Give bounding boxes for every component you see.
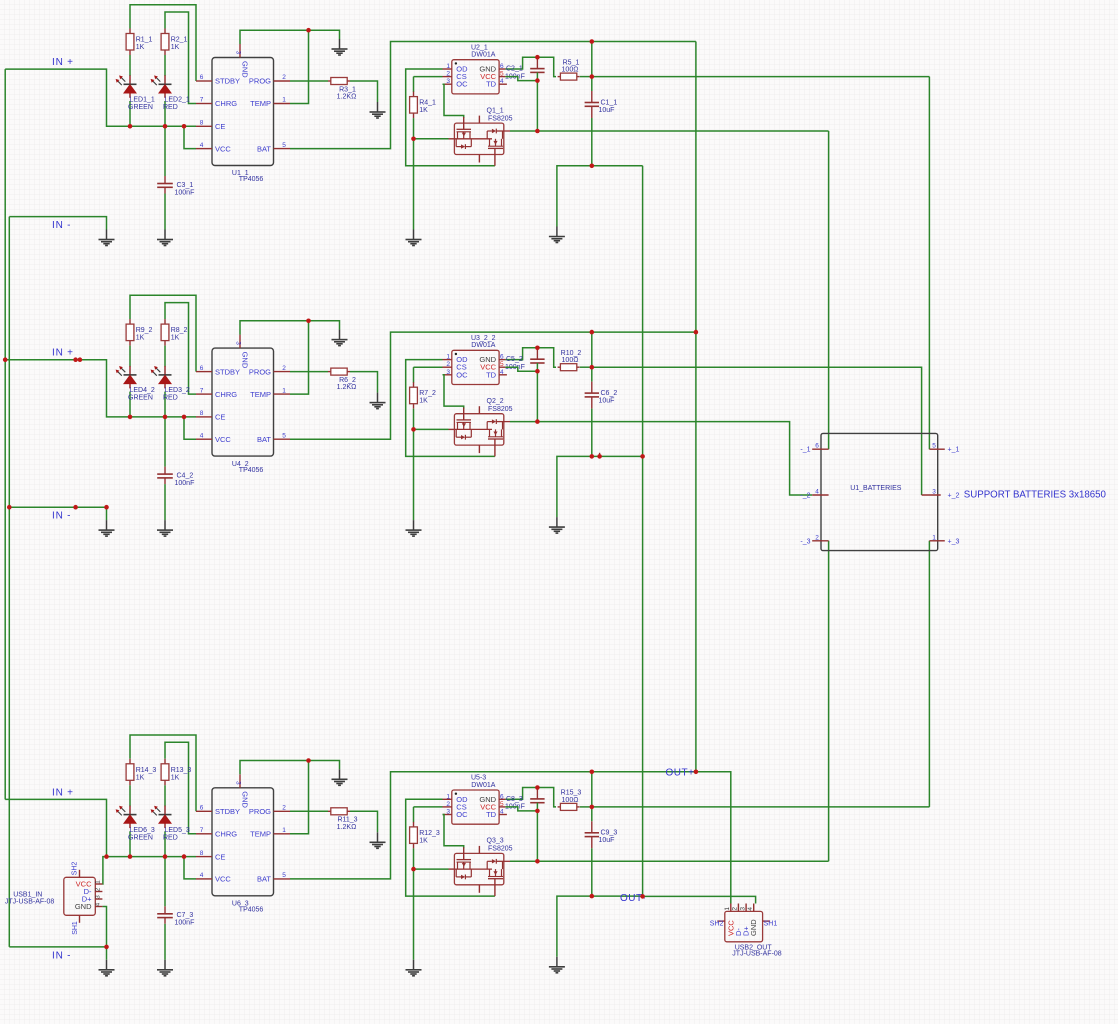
lead CS into Q bbox=[449, 138, 455, 140]
svg-text:6: 6 bbox=[500, 63, 504, 70]
wire IN- block1 bbox=[9, 217, 106, 230]
wire B+ riser bbox=[591, 772, 593, 822]
resistor R13_3 bbox=[161, 759, 169, 786]
wire OC net bbox=[443, 84, 464, 118]
lead C top bbox=[164, 176, 166, 183]
LED LED4_2 bbox=[116, 366, 137, 389]
wire GND pin elbow bbox=[240, 30, 340, 44]
LED LED1_1 bbox=[116, 75, 137, 98]
op-amp U2_1 DW01A body bbox=[452, 60, 499, 94]
wire TEMP tie bbox=[290, 30, 309, 103]
svg-text:RED: RED bbox=[163, 395, 178, 402]
wire to C bbox=[164, 857, 166, 907]
wire OUT+ to USB2 VCC bbox=[696, 772, 731, 904]
svg-text:1: 1 bbox=[282, 97, 286, 104]
pin 6 STDBY bbox=[196, 365, 240, 377]
svg-text:TD: TD bbox=[486, 810, 497, 819]
wire GND pin to R bbox=[505, 57, 556, 76]
svg-text:1.2KΩ: 1.2KΩ bbox=[337, 94, 357, 101]
svg-text:CE: CE bbox=[215, 413, 225, 422]
svg-text:PROG: PROG bbox=[249, 807, 271, 816]
svg-text:C5_2: C5_2 bbox=[506, 356, 523, 363]
svg-text:IN +: IN + bbox=[52, 348, 74, 359]
capacitor C7_3 bbox=[157, 914, 173, 918]
wire CE to VCC bbox=[184, 857, 196, 879]
svg-text:JTJ-USB-AF-08: JTJ-USB-AF-08 bbox=[5, 899, 55, 906]
capacitor C4_2 bbox=[157, 474, 173, 478]
resistor R1_1 bbox=[126, 29, 134, 56]
pin 8 CE bbox=[196, 410, 225, 422]
net label IN- block1 bbox=[52, 220, 71, 231]
label R15_3 bbox=[561, 790, 582, 804]
op-amp U3_2_2 DW01A body bbox=[452, 350, 499, 384]
wire R to B+ node bbox=[580, 366, 592, 368]
svg-text:5: 5 bbox=[932, 443, 936, 450]
wire R to LED bbox=[164, 346, 166, 367]
svg-text:GND: GND bbox=[749, 919, 758, 936]
svg-text:TD: TD bbox=[486, 370, 497, 379]
wire VCC elbow bbox=[505, 367, 537, 371]
wire +_3 riser bbox=[928, 541, 930, 807]
svg-text:10uF: 10uF bbox=[599, 107, 615, 114]
svg-text:R2_1: R2_1 bbox=[171, 37, 188, 44]
junction bbox=[640, 894, 645, 899]
wire IN- block3 bbox=[9, 947, 106, 960]
battery holder U1_BATTERIES bbox=[821, 433, 938, 550]
svg-text:C1_1: C1_1 bbox=[601, 99, 618, 106]
pin 2 PROG bbox=[249, 805, 290, 817]
pin 2 PROG bbox=[249, 74, 290, 86]
svg-text:R3_1: R3_1 bbox=[339, 86, 356, 93]
svg-text:1: 1 bbox=[95, 880, 102, 884]
svg-text:100nF: 100nF bbox=[175, 189, 195, 196]
wire OD net bbox=[406, 69, 495, 166]
label LED5_3 bbox=[163, 827, 190, 842]
wire USB1 GND down bbox=[102, 907, 106, 947]
wire CS node to ground bbox=[413, 139, 415, 230]
pin 3 GND bbox=[235, 335, 250, 369]
svg-text:SH1: SH1 bbox=[72, 921, 79, 935]
wire IN+ bus rail bbox=[4, 69, 6, 799]
wire GND pin elbow bbox=[240, 321, 340, 335]
svg-text:SH2: SH2 bbox=[72, 862, 79, 876]
svg-text:1K: 1K bbox=[419, 107, 428, 114]
svg-text:4: 4 bbox=[200, 142, 204, 149]
pin 7 CHRG bbox=[196, 97, 237, 109]
svg-text:GND: GND bbox=[241, 791, 250, 808]
net label OUT+ bbox=[666, 768, 695, 779]
svg-text:R1_1: R1_1 bbox=[136, 37, 153, 44]
ground C bbox=[157, 520, 173, 536]
wire R to STDBY bbox=[130, 5, 196, 81]
op-amp U4_2 TP4056 body bbox=[212, 348, 274, 456]
wire to C bbox=[164, 417, 166, 467]
transistor Q2_2 FS8205 body bbox=[454, 414, 503, 445]
junction bbox=[182, 415, 187, 420]
svg-text:IN -: IN - bbox=[52, 220, 71, 231]
svg-text:PROG: PROG bbox=[249, 77, 271, 86]
wire R to B+ node bbox=[580, 76, 592, 78]
svg-text:6: 6 bbox=[200, 805, 204, 812]
wire R to CS node bbox=[413, 118, 415, 139]
resistor R10_2 bbox=[558, 364, 580, 371]
label U2_1 bbox=[471, 44, 496, 58]
svg-text:1K: 1K bbox=[136, 335, 145, 342]
pin 4 VCC bbox=[196, 142, 231, 154]
pin 5 VCC bbox=[480, 361, 505, 372]
svg-text:LED5_3: LED5_3 bbox=[165, 827, 190, 834]
wire LED to CE bbox=[164, 392, 166, 417]
junction bbox=[535, 785, 540, 790]
svg-text:100Ω: 100Ω bbox=[562, 797, 579, 804]
wire CS node to ground bbox=[413, 429, 415, 520]
wire CS to R bbox=[413, 77, 415, 92]
resistor R5_1 bbox=[558, 73, 580, 80]
svg-text:GREEN: GREEN bbox=[128, 395, 153, 402]
wire C to ground bbox=[164, 484, 166, 520]
junction bbox=[590, 805, 595, 810]
resistor R3_1 bbox=[328, 78, 350, 85]
wire R to STDBY bbox=[130, 735, 196, 811]
resistor R9_2 bbox=[126, 319, 134, 346]
junction bbox=[78, 357, 83, 362]
svg-text:1K: 1K bbox=[136, 44, 145, 51]
wire OC net bbox=[443, 375, 464, 409]
wire C to gnd rail bbox=[591, 848, 593, 896]
svg-text:R4_1: R4_1 bbox=[419, 100, 436, 107]
net label IN+ block2 bbox=[52, 348, 74, 359]
net label IN+ block1 bbox=[52, 57, 74, 68]
junction bbox=[128, 415, 133, 420]
wire TEMP tie bbox=[290, 321, 309, 394]
svg-text:6: 6 bbox=[500, 793, 504, 800]
wire CS node to Q bbox=[414, 868, 449, 870]
svg-text:GREEN: GREEN bbox=[128, 834, 153, 841]
svg-text:4: 4 bbox=[500, 369, 504, 376]
label U5-3 bbox=[471, 775, 496, 789]
svg-text:IN -: IN - bbox=[52, 950, 71, 961]
svg-text:R10_2: R10_2 bbox=[561, 350, 582, 357]
svg-text:TP4056: TP4056 bbox=[239, 176, 264, 183]
svg-text:LED6_3: LED6_3 bbox=[130, 827, 155, 834]
wire CS node to Q bbox=[414, 428, 449, 430]
svg-text:VCC: VCC bbox=[215, 875, 231, 884]
label R11_3 bbox=[337, 817, 358, 831]
label R13_3 bbox=[171, 767, 192, 782]
ground GND pin bbox=[332, 769, 348, 785]
pin 6 -_1 bbox=[800, 443, 828, 454]
svg-text:IN -: IN - bbox=[52, 511, 71, 522]
svg-text:4: 4 bbox=[747, 907, 754, 911]
svg-text:TEMP: TEMP bbox=[250, 390, 271, 399]
pin 3 OC bbox=[443, 809, 469, 820]
junction bbox=[411, 867, 416, 872]
resistor R4_1 bbox=[410, 92, 418, 119]
svg-text:5: 5 bbox=[500, 801, 504, 808]
svg-text:FS8205: FS8205 bbox=[488, 846, 513, 853]
svg-text:8: 8 bbox=[200, 850, 204, 857]
svg-text:3: 3 bbox=[932, 489, 936, 496]
wire GND pin elbow bbox=[240, 761, 340, 775]
label Q2_2 bbox=[487, 398, 513, 413]
svg-text:6: 6 bbox=[200, 365, 204, 372]
svg-text:U2_1: U2_1 bbox=[471, 44, 488, 51]
label C2_1 bbox=[505, 66, 525, 81]
svg-text:10uF: 10uF bbox=[599, 837, 615, 844]
transistor Q3_3 internals bbox=[454, 846, 510, 896]
svg-text:5: 5 bbox=[500, 71, 504, 78]
resistor R8_2 bbox=[161, 319, 169, 346]
svg-text:R9_2: R9_2 bbox=[136, 327, 153, 334]
svg-text:U1_BATTERIES: U1_BATTERIES bbox=[850, 485, 902, 492]
wire OD net bbox=[406, 360, 495, 457]
wire VCC node down bbox=[536, 81, 538, 131]
svg-text:1K: 1K bbox=[171, 335, 180, 342]
junction bbox=[306, 319, 311, 324]
ground CS R bbox=[406, 520, 422, 536]
junction bbox=[73, 505, 78, 510]
svg-text:10uF: 10uF bbox=[599, 397, 615, 404]
svg-text:7: 7 bbox=[200, 827, 204, 834]
resistor R6_2 bbox=[328, 368, 350, 375]
svg-text:C3_1: C3_1 bbox=[177, 182, 194, 189]
wire C to VCC node bbox=[536, 363, 538, 371]
svg-text:USB1_IN: USB1_IN bbox=[13, 891, 42, 898]
svg-text:100Ω: 100Ω bbox=[562, 67, 579, 74]
svg-text:4: 4 bbox=[500, 78, 504, 85]
label R3_1 bbox=[337, 86, 357, 100]
label C5_2 bbox=[505, 356, 525, 371]
svg-text:GND: GND bbox=[241, 352, 250, 369]
op-amp U6_3 TP4056 body bbox=[212, 788, 274, 896]
junction bbox=[694, 770, 699, 775]
pin 1 OD bbox=[443, 63, 469, 74]
svg-text:Q2_2: Q2_2 bbox=[487, 398, 504, 405]
wire to C bbox=[164, 126, 166, 176]
junction bbox=[590, 164, 595, 169]
wire B+2 to +_2 bbox=[592, 367, 922, 495]
svg-text:RED: RED bbox=[163, 834, 178, 841]
label R4_1 bbox=[419, 100, 436, 115]
wire R to ground bbox=[350, 81, 378, 102]
label LED2_1 bbox=[163, 97, 190, 112]
lead C bbox=[591, 821, 593, 832]
pin 7 CHRG bbox=[196, 387, 237, 399]
wire R to B+ node bbox=[580, 806, 592, 808]
wire gnd rail bbox=[557, 896, 643, 957]
svg-text:2: 2 bbox=[95, 887, 102, 891]
svg-text:4: 4 bbox=[500, 809, 504, 816]
ground C bbox=[157, 960, 173, 976]
svg-text:5: 5 bbox=[282, 142, 286, 149]
svg-text:8: 8 bbox=[200, 410, 204, 417]
wire R to LED bbox=[129, 55, 131, 76]
ground GND pin bbox=[332, 39, 348, 55]
wire -_3 riser bbox=[828, 541, 830, 862]
svg-text:C9_3: C9_3 bbox=[601, 830, 618, 837]
svg-text:CE: CE bbox=[215, 852, 225, 861]
svg-text:7: 7 bbox=[200, 387, 204, 394]
junction bbox=[535, 346, 540, 351]
pin 8 CE bbox=[196, 120, 225, 132]
wire gnd rail bbox=[557, 456, 643, 517]
svg-text:4: 4 bbox=[200, 432, 204, 439]
svg-text:VCC: VCC bbox=[215, 435, 231, 444]
svg-text:1: 1 bbox=[446, 793, 450, 800]
net label IN- block3 bbox=[52, 950, 71, 961]
svg-text:IN +: IN + bbox=[52, 57, 74, 68]
pin 1 +_3 bbox=[929, 534, 959, 545]
lead C bbox=[591, 382, 593, 393]
wire C to ground bbox=[164, 924, 166, 960]
wire C to gnd rail bbox=[591, 118, 593, 166]
svg-text:R5_1: R5_1 bbox=[563, 59, 580, 66]
junction bbox=[306, 758, 311, 763]
svg-text:R12_3: R12_3 bbox=[419, 830, 440, 837]
net label IN- block2 bbox=[52, 511, 71, 522]
wire PROG to R bbox=[290, 80, 328, 82]
label C3_1 bbox=[175, 182, 195, 197]
wire BAT rail bbox=[290, 42, 696, 149]
junction bbox=[590, 365, 595, 370]
svg-text:1: 1 bbox=[446, 354, 450, 361]
wire Q1 output to battery -_1 bbox=[510, 130, 829, 132]
wire OUT- to USB2 GND bbox=[643, 896, 756, 903]
wire R to CHRG bbox=[165, 742, 196, 834]
svg-text:TP4056: TP4056 bbox=[239, 907, 264, 914]
pin 6 GND bbox=[479, 354, 505, 365]
pin 1 TEMP bbox=[250, 827, 290, 839]
wire VCC node down bbox=[536, 811, 538, 861]
svg-text:VCC: VCC bbox=[215, 144, 231, 153]
wire B+ riser bbox=[591, 332, 593, 382]
label R1_1 bbox=[136, 37, 153, 52]
svg-text:C2_1: C2_1 bbox=[506, 66, 523, 73]
resistor R7_2 bbox=[410, 382, 418, 409]
label U6_3 bbox=[232, 901, 264, 914]
pin 4 VCC bbox=[196, 872, 231, 884]
svg-text:BAT: BAT bbox=[257, 435, 271, 444]
junction bbox=[590, 74, 595, 79]
pin 4 TD bbox=[486, 809, 507, 820]
junction bbox=[306, 28, 311, 33]
label C4_2 bbox=[175, 472, 195, 487]
svg-text:C4_2: C4_2 bbox=[177, 472, 194, 479]
svg-text:-_3: -_3 bbox=[800, 538, 810, 545]
ground GND pin bbox=[332, 330, 348, 346]
resistor R11_3 bbox=[328, 808, 350, 815]
svg-text:1: 1 bbox=[932, 534, 936, 541]
ground PROG R bbox=[370, 393, 386, 409]
label C6_2 bbox=[599, 390, 618, 405]
junction IN+ rail block2 bbox=[3, 357, 8, 362]
wire VCC node down bbox=[536, 371, 538, 421]
label R9_2 bbox=[136, 327, 153, 342]
label U1_BATTERIES bbox=[850, 485, 902, 492]
pin 2 CS bbox=[443, 361, 467, 372]
label R6_2 bbox=[337, 377, 357, 391]
junction bbox=[535, 369, 540, 374]
svg-text:5: 5 bbox=[500, 361, 504, 368]
svg-text:R11_3: R11_3 bbox=[337, 817, 357, 824]
resistor R15_3 bbox=[558, 803, 580, 810]
svg-text:OC: OC bbox=[456, 80, 468, 89]
svg-text:R6_2: R6_2 bbox=[339, 377, 356, 384]
pin 4 TD bbox=[486, 369, 507, 380]
svg-text:2: 2 bbox=[446, 71, 450, 78]
svg-text:TD: TD bbox=[486, 80, 497, 89]
ground rail bbox=[549, 227, 565, 243]
junction bbox=[182, 854, 187, 859]
note SUPPORT BATTERIES 3x18650 bbox=[964, 490, 1107, 501]
svg-text:100Ω: 100Ω bbox=[562, 357, 579, 364]
wire IN+ to CE block1 bbox=[5, 69, 196, 126]
svg-text:100nF: 100nF bbox=[175, 920, 195, 927]
label C1_1 bbox=[599, 99, 618, 114]
lead C top bbox=[536, 57, 538, 68]
pin 1 TEMP bbox=[250, 387, 290, 399]
lead C top bbox=[536, 348, 538, 359]
capacitor C8_3 bbox=[530, 799, 544, 803]
lead C bottom bbox=[164, 918, 166, 924]
label Q3_3 bbox=[487, 838, 513, 853]
pin names USB1 bbox=[72, 862, 102, 935]
svg-text:1: 1 bbox=[282, 387, 286, 394]
svg-text:2: 2 bbox=[282, 365, 286, 372]
svg-text:3: 3 bbox=[95, 895, 102, 899]
svg-text:R7_2: R7_2 bbox=[419, 390, 436, 397]
svg-text:STDBY: STDBY bbox=[215, 367, 240, 376]
junction bbox=[640, 454, 645, 459]
net label IN+ block3 bbox=[52, 787, 74, 798]
transistor Q1_1 FS8205 body bbox=[454, 123, 503, 154]
pin 4 VCC bbox=[196, 432, 231, 444]
svg-text:8: 8 bbox=[200, 120, 204, 127]
svg-text:3: 3 bbox=[235, 51, 242, 55]
lead C top bbox=[164, 906, 166, 913]
label LED3_2 bbox=[163, 387, 190, 402]
svg-text:7: 7 bbox=[200, 97, 204, 104]
ground C bbox=[157, 230, 173, 246]
wire CS bbox=[414, 76, 443, 78]
ground CS R bbox=[406, 960, 422, 976]
junction bbox=[535, 809, 540, 814]
lead C bbox=[591, 91, 593, 102]
pin 1 OD bbox=[443, 793, 469, 804]
pin 6 STDBY bbox=[196, 74, 240, 86]
svg-text:LED2_1: LED2_1 bbox=[165, 97, 190, 104]
label C8_3 bbox=[505, 796, 525, 811]
wire PROG to R bbox=[290, 371, 328, 373]
svg-text:SUPPORT BATTERIES 3x18650: SUPPORT BATTERIES 3x18650 bbox=[964, 490, 1107, 501]
label Q1_1 bbox=[487, 107, 513, 122]
wire B+ riser bbox=[591, 42, 593, 92]
junction bbox=[163, 415, 168, 420]
pin 6 GND bbox=[479, 63, 505, 74]
svg-text:RED: RED bbox=[163, 104, 178, 111]
wire C to VCC node bbox=[536, 803, 538, 811]
svg-text:+_3: +_3 bbox=[948, 538, 960, 545]
connector USB1_IN bbox=[64, 870, 103, 923]
wire R to LED bbox=[164, 785, 166, 806]
net label OUT- bbox=[620, 893, 646, 904]
svg-text:BAT: BAT bbox=[257, 875, 271, 884]
wire Q2 output to -_2 bbox=[510, 422, 812, 495]
svg-text:+_2: +_2 bbox=[948, 493, 960, 500]
capacitor C9_3 bbox=[585, 833, 599, 837]
label C7_3 bbox=[175, 912, 195, 927]
resistor R14_3 bbox=[126, 759, 134, 786]
